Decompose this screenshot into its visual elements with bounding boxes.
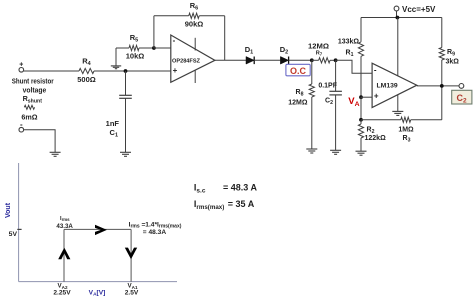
- wire feedback top right: [199, 15, 225, 17]
- node output terminal: [459, 84, 464, 89]
- ground (R2): [356, 150, 367, 152]
- svg-text:R9: R9: [447, 49, 455, 58]
- resistor R8: [311, 60, 313, 84]
- waveform right leg: [130, 229, 132, 281]
- svg-text:6mΩ: 6mΩ: [21, 113, 37, 122]
- node VA: [359, 95, 363, 99]
- node output junction: [440, 84, 444, 88]
- resistor R2 122k: [358, 124, 363, 138]
- svg-text:D1: D1: [245, 45, 253, 56]
- wire VA down: [360, 97, 362, 120]
- waveform left leg: [63, 229, 65, 281]
- wire op-amp output: [215, 59, 246, 61]
- svg-text:1MΩ: 1MΩ: [398, 127, 414, 134]
- svg-text:-: -: [173, 36, 176, 45]
- resistor R9 3k: [441, 18, 443, 48]
- diode D1: [246, 57, 254, 65]
- ground (LM139): [392, 110, 403, 112]
- svg-text:VA[V]: VA[V]: [89, 289, 106, 297]
- svg-text:O.C: O.C: [290, 66, 307, 76]
- wire junction to op-amp -input: [154, 47, 171, 49]
- ground (R8): [306, 148, 317, 150]
- svg-text:R8: R8: [296, 89, 304, 98]
- graph y-axis Vout: [18, 163, 20, 282]
- node R7/C2: [334, 58, 338, 62]
- svg-text:-: -: [374, 65, 377, 74]
- resistor R1 133k: [360, 18, 362, 42]
- svg-text:2.5V: 2.5V: [125, 289, 139, 296]
- svg-text:3kΩ: 3kΩ: [446, 59, 460, 66]
- svg-text:VA: VA: [348, 96, 359, 108]
- arrow down: [125, 248, 137, 260]
- wire Vcc stub: [396, 11, 398, 18]
- ground (input): [50, 151, 61, 153]
- svg-text:Is.c: Is.c: [194, 183, 206, 195]
- svg-text:R3: R3: [403, 135, 411, 144]
- svg-text:C2: C2: [325, 98, 333, 107]
- diode D2: [280, 57, 288, 65]
- wire main input: [24, 70, 79, 72]
- resistor symbol Rshunt: [24, 105, 34, 109]
- svg-text:500Ω: 500Ω: [77, 75, 96, 84]
- svg-text:12MΩ: 12MΩ: [288, 100, 308, 107]
- wire feedback right leg: [224, 16, 226, 61]
- node R5/R6 junction: [152, 46, 156, 50]
- wire R4 to +input: [94, 70, 171, 72]
- node Vcc junction: [396, 16, 400, 20]
- power Vcc terminal: [394, 6, 399, 11]
- wire to LM139 -input: [336, 60, 373, 73]
- svg-text:Vcc=+5V: Vcc=+5V: [402, 5, 436, 14]
- svg-text:1nF: 1nF: [106, 119, 120, 128]
- label O.C box: [286, 64, 310, 76]
- svg-text:C1: C1: [110, 128, 118, 139]
- capacitor C2: [335, 60, 337, 91]
- svg-text:0.1PF: 0.1PF: [318, 83, 337, 90]
- op-amp power pin top: [194, 38, 196, 51]
- svg-text:OP284FSZ: OP284FSZ: [172, 59, 201, 65]
- wire R3 left: [361, 119, 401, 121]
- resistor R5: [116, 47, 129, 49]
- wire comparator output: [417, 85, 459, 87]
- svg-text:Irms: Irms: [60, 216, 70, 222]
- svg-text:D2: D2: [280, 45, 288, 56]
- wire lower terminal to ground: [24, 130, 55, 153]
- svg-text:R5: R5: [130, 33, 138, 44]
- tick 5V: [17, 228, 21, 230]
- resistor R4: [79, 68, 94, 73]
- svg-text:R1: R1: [346, 50, 354, 59]
- svg-text:12MΩ: 12MΩ: [308, 42, 329, 51]
- ground (C1): [120, 151, 131, 153]
- svg-text:90kΩ: 90kΩ: [185, 20, 204, 29]
- resistor R7: [319, 58, 330, 63]
- svg-text:R6: R6: [190, 1, 198, 12]
- ground (C2): [330, 149, 341, 151]
- op-amp power pin bottom: [194, 70, 196, 83]
- svg-text:+: +: [374, 91, 379, 100]
- arrow right: [95, 225, 107, 235]
- svg-text:43.3A: 43.3A: [56, 223, 73, 230]
- wire R3 to output: [441, 86, 443, 120]
- node O.C: [310, 58, 314, 62]
- wire R5 to ground: [115, 48, 117, 66]
- svg-text:5V: 5V: [9, 231, 18, 238]
- wire D2 to node: [289, 59, 312, 61]
- svg-text:R7: R7: [316, 51, 323, 57]
- svg-text:10kΩ: 10kΩ: [126, 52, 145, 61]
- svg-text:Vout: Vout: [5, 202, 12, 218]
- wire feedback left leg: [153, 16, 155, 48]
- arrow up: [58, 248, 70, 260]
- svg-text:133kΩ: 133kΩ: [338, 39, 360, 46]
- svg-text:+: +: [173, 66, 178, 75]
- svg-text:R2: R2: [367, 127, 375, 136]
- node junction C1: [124, 69, 128, 73]
- wire D1 to D2: [254, 59, 280, 61]
- wire feedback top left: [154, 15, 189, 17]
- comparator U2 LM139: [372, 63, 417, 107]
- ground (R5): [111, 65, 121, 67]
- svg-text:= 48.3A: = 48.3A: [143, 229, 167, 236]
- op-amp U1 OP284FSZ: [171, 35, 215, 82]
- resistor R6: [189, 13, 200, 18]
- resistor R3 1M: [401, 117, 411, 122]
- svg-text:LM139: LM139: [377, 83, 398, 90]
- svg-text:Rshunt: Rshunt: [23, 94, 43, 105]
- label C2 output box: [452, 90, 472, 104]
- comparator power pin bottom: [397, 95, 399, 111]
- svg-text:R4: R4: [82, 57, 91, 68]
- comparator power pin top: [397, 18, 399, 76]
- wire Vcc rail: [361, 17, 442, 19]
- graph x-axis VA: [19, 281, 177, 283]
- capacitor C1: [125, 71, 127, 95]
- svg-text:Irms(max) = 35 A: Irms(max) = 35 A: [194, 199, 255, 211]
- waveform top: [64, 228, 131, 230]
- svg-text:2.25V: 2.25V: [53, 289, 71, 296]
- svg-text:122kΩ: 122kΩ: [365, 135, 387, 142]
- svg-text:= 48.3 A: = 48.3 A: [223, 183, 257, 193]
- svg-text:Shunt resistor: Shunt resistor: [12, 77, 54, 86]
- node R2/R3 junction: [359, 118, 363, 122]
